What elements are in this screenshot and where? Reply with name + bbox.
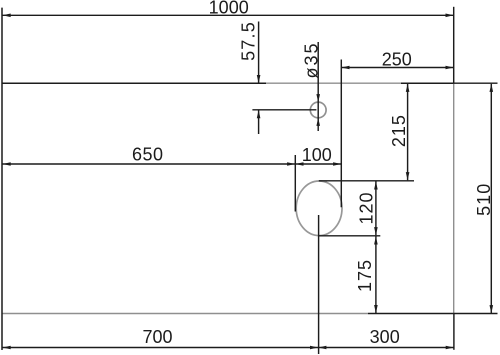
svg-text:100: 100 (302, 145, 332, 165)
svg-text:175: 175 (355, 259, 375, 292)
svg-text:510: 510 (474, 183, 494, 216)
svg-text:1000: 1000 (209, 0, 249, 18)
svg-text:650: 650 (132, 145, 164, 165)
svg-text:57.5: 57.5 (239, 21, 259, 61)
svg-text:120: 120 (357, 191, 377, 224)
svg-text:300: 300 (370, 327, 400, 347)
svg-text:215: 215 (389, 114, 409, 147)
svg-text:700: 700 (142, 327, 172, 347)
svg-text:250: 250 (382, 49, 412, 69)
svg-text:ø35: ø35 (302, 41, 322, 78)
